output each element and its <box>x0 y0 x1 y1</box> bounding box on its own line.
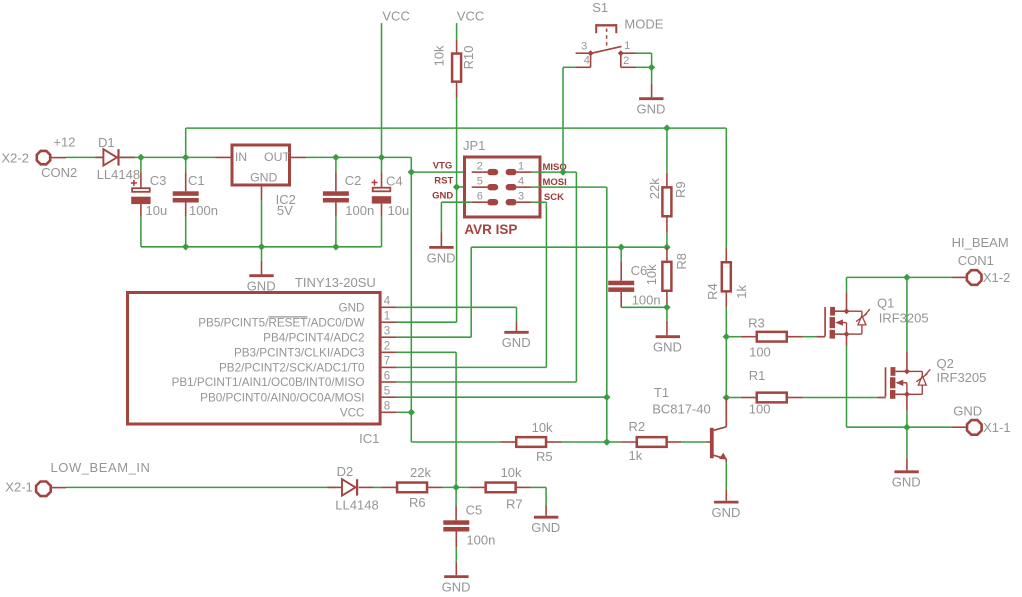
junction S1 pin2 node <box>648 64 655 71</box>
resistor R3 <box>741 332 803 342</box>
svg-text:4: 4 <box>384 296 391 308</box>
resistor R9 <box>662 128 671 247</box>
svg-text:6: 6 <box>384 370 390 382</box>
junction GND rail at C1 <box>182 243 189 250</box>
svg-text:Q1: Q1 <box>877 296 894 311</box>
svg-text:10k: 10k <box>532 420 553 435</box>
wire GND rail C3/C1/IC2/C2/C4 <box>141 216 382 247</box>
junction VCC at VTG elbow <box>408 168 415 175</box>
svg-text:S1: S1 <box>592 0 608 15</box>
wire SCK net: JP1 pin3 to IC1 pin7 <box>397 202 547 367</box>
svg-text:PB5/PCINT5/RESET/ADC0/DW: PB5/PCINT5/RESET/ADC0/DW <box>198 316 364 329</box>
svg-text:100n: 100n <box>189 203 218 218</box>
svg-text:1: 1 <box>384 311 390 323</box>
svg-text:R5: R5 <box>536 449 553 464</box>
svg-text:D2: D2 <box>337 464 354 479</box>
resistor R10 <box>452 23 461 97</box>
svg-text:JP1: JP1 <box>463 138 485 153</box>
svg-text:GND: GND <box>250 171 277 185</box>
svg-text:R4: R4 <box>705 283 720 300</box>
svg-text:GND: GND <box>637 102 666 117</box>
wire MOSI net: JP1 pin4 to IC1 pin5 and R2 <box>397 187 607 442</box>
svg-text:5: 5 <box>477 176 483 188</box>
capacitor C2 <box>323 157 349 216</box>
wire S1 pin4 to MISO node <box>563 67 576 172</box>
ground symbol below S1 <box>637 84 666 117</box>
svg-text:100n: 100n <box>466 533 495 548</box>
svg-text:BC817-40: BC817-40 <box>652 402 711 417</box>
ground symbol below JP1 <box>427 232 456 265</box>
wire R5 to R2 node <box>562 441 620 443</box>
svg-text:4: 4 <box>518 176 524 188</box>
junction R8 bottom / C6 / ground <box>663 304 670 311</box>
svg-text:T1: T1 <box>654 385 669 400</box>
svg-text:8: 8 <box>384 401 390 413</box>
svg-text:GND: GND <box>892 475 921 490</box>
wire LOW_BEAM_IN: X2-1 to D2 <box>66 486 335 488</box>
wire MISO net: JP1 pin1 to IC1 pin6 <box>397 172 577 382</box>
svg-text:+12: +12 <box>53 134 75 149</box>
svg-text:4: 4 <box>584 54 590 66</box>
junction PB4 at R8/R9 <box>663 244 670 251</box>
svg-text:C2: C2 <box>345 173 362 188</box>
svg-text:TINY13-20SU: TINY13-20SU <box>295 275 376 290</box>
mosfet Q2 IRF3205 <box>877 367 930 399</box>
svg-text:C4: C4 <box>386 174 403 189</box>
svg-text:R6: R6 <box>409 495 426 510</box>
microcontroller IC1 TINY13 <box>128 293 397 425</box>
svg-text:3: 3 <box>581 40 587 52</box>
junction GND rail at IC2 GND <box>258 243 265 250</box>
connector pad X2-1 <box>36 482 66 497</box>
junction HI_BEAM at Q2 drain branch <box>903 274 910 281</box>
svg-text:R1: R1 <box>749 368 766 383</box>
svg-text:22k: 22k <box>410 465 431 480</box>
resistor R8 <box>662 247 671 307</box>
svg-text:5: 5 <box>384 386 390 398</box>
resistor R6 <box>381 483 443 493</box>
wire D2 to R6 <box>374 486 382 488</box>
wire S1 pins1/2 to ground <box>636 53 652 83</box>
resistor R7 <box>470 483 531 493</box>
wire VCC net: IC2 OUT to C2, C4, VCC symbol, VTG and IC1 VCC <box>306 23 500 442</box>
ground symbol below Q2 <box>892 458 921 490</box>
connector pad X2-2 <box>37 151 66 164</box>
connector pad X1-2 <box>952 270 982 285</box>
svg-text:GND: GND <box>502 335 531 350</box>
svg-text:GND: GND <box>712 505 741 520</box>
capacitor C5 <box>443 487 469 547</box>
junction R1/T1 collector node <box>723 394 730 401</box>
voltage regulator IC2 <box>216 145 307 201</box>
svg-text:IC1: IC1 <box>359 431 379 446</box>
wire C5 to ground <box>455 547 457 563</box>
svg-text:100n: 100n <box>632 293 661 308</box>
svg-text:1: 1 <box>624 40 630 52</box>
wire R8 bottom to ground <box>666 307 668 321</box>
svg-text:R10: R10 <box>461 46 476 70</box>
ground symbol below IC1 GND pin <box>502 321 531 350</box>
diode D1 <box>95 149 134 165</box>
junction VCC at C2 <box>332 154 339 161</box>
svg-text:X1-1: X1-1 <box>983 420 1010 435</box>
svg-text:GND: GND <box>432 190 453 201</box>
junction low-beam divider node <box>452 484 459 491</box>
svg-text:GND: GND <box>653 340 682 355</box>
wire R7 to ground <box>531 487 547 505</box>
junction R4/R3 node <box>723 333 730 340</box>
svg-text:GND: GND <box>531 520 560 535</box>
capacitor C3 (polarized) <box>131 157 151 216</box>
mosfet Q1 IRF3205 <box>816 307 870 339</box>
svg-text:PB1/PCINT1/AIN1/OC0B/INT0/MISO: PB1/PCINT1/AIN1/OC0B/INT0/MISO <box>172 376 365 389</box>
svg-text:10u: 10u <box>388 203 410 218</box>
svg-text:VCC: VCC <box>340 406 365 419</box>
svg-text:X2-2: X2-2 <box>2 150 29 165</box>
svg-text:VTG: VTG <box>433 160 453 171</box>
svg-text:6: 6 <box>477 191 483 203</box>
ground symbol below C5 <box>442 563 471 595</box>
ground symbol below R7 <box>531 506 560 536</box>
capacitor C4 (polarized) <box>372 157 392 216</box>
connector pad X1-1 <box>952 420 982 435</box>
svg-text:C3: C3 <box>150 173 167 188</box>
wire R4 node to R3 <box>726 336 741 338</box>
junction GND rail at C2 <box>332 243 339 250</box>
overline on RESET <box>269 316 308 318</box>
svg-text:GND: GND <box>442 580 471 595</box>
svg-text:HI_BEAM: HI_BEAM <box>952 235 1009 250</box>
svg-text:GND: GND <box>339 301 365 314</box>
wire HI_BEAM net: Q1 drain, Q2 drain to X1-2 <box>847 277 952 351</box>
wire R2 to T1 base <box>681 441 706 443</box>
capacitor C1 <box>173 157 199 216</box>
svg-text:X1-2: X1-2 <box>983 270 1010 285</box>
svg-text:IRF3205: IRF3205 <box>879 310 929 325</box>
svg-text:R7: R7 <box>506 497 523 512</box>
resistor R2 <box>620 437 681 447</box>
wire JP1 GND pin to ground <box>441 202 471 232</box>
ground symbol below R8 <box>653 321 682 355</box>
wire T1 emitter to ground <box>725 462 727 490</box>
svg-text:C5: C5 <box>466 502 483 517</box>
svg-text:3: 3 <box>518 191 524 203</box>
svg-text:LL4148: LL4148 <box>335 497 378 512</box>
wire output ground net: Q1 source, Q2 source, X1-1, ground <box>847 346 952 458</box>
svg-text:PB3/PCINT3/CLKI/ADC3: PB3/PCINT3/CLKI/ADC3 <box>234 346 365 359</box>
junction MISO at S1 wire <box>559 168 566 175</box>
svg-text:7: 7 <box>384 356 390 368</box>
junction PB4 at C6 <box>618 244 625 251</box>
svg-text:Q2: Q2 <box>937 356 954 371</box>
svg-text:VCC: VCC <box>457 8 484 23</box>
wire Q2 source pin <box>906 394 908 411</box>
svg-text:22k: 22k <box>647 178 662 199</box>
ground symbol below T1 <box>712 490 741 520</box>
wire R1 node to R1 <box>726 397 741 399</box>
svg-text:LL4148: LL4148 <box>97 167 140 182</box>
svg-text:SCK: SCK <box>544 192 564 203</box>
svg-text:CON2: CON2 <box>41 165 77 180</box>
svg-text:R9: R9 <box>673 181 688 198</box>
svg-text:5V: 5V <box>277 203 293 218</box>
ground symbol below IC2 <box>247 247 276 294</box>
svg-text:CON1: CON1 <box>958 253 994 268</box>
junction R2/R5/MOSI node <box>603 438 610 445</box>
wire Q1 drain pin <box>846 292 848 311</box>
svg-text:PB4/PCINT4/ADC2: PB4/PCINT4/ADC2 <box>263 331 364 344</box>
svg-text:GND: GND <box>953 403 982 418</box>
svg-text:100: 100 <box>749 345 771 360</box>
resistor R1 <box>741 393 803 403</box>
junction output ground at X1-1 row <box>903 424 910 431</box>
junction +12 at C1/rail <box>182 154 189 161</box>
resistor R5 <box>500 437 562 447</box>
switch S1 bracket <box>576 24 636 67</box>
svg-text:C1: C1 <box>188 173 205 188</box>
svg-text:IN: IN <box>235 150 247 164</box>
junction MOSI at IC1 pin5 <box>603 394 610 401</box>
wire RST net: R10 to JP1 pin5 and IC1 pin1(RESET) <box>397 97 472 322</box>
svg-text:2: 2 <box>477 160 483 172</box>
svg-text:100n: 100n <box>345 203 374 218</box>
svg-text:X2-1: X2-1 <box>5 480 32 495</box>
svg-text:D1: D1 <box>98 135 115 150</box>
junction VCC at C4 <box>378 154 385 161</box>
wire PB3 net: IC1 pin2 to low-beam divider node <box>397 352 457 487</box>
wire IC2 GND pin down to ground rail <box>261 201 263 247</box>
svg-text:AVR ISP: AVR ISP <box>464 222 517 237</box>
svg-text:R8: R8 <box>674 253 689 270</box>
svg-text:2: 2 <box>623 55 629 67</box>
junction +12 at D1/C3 <box>137 154 144 161</box>
wire R6 to junction to R7 <box>443 486 470 488</box>
svg-text:R3: R3 <box>748 315 765 330</box>
svg-text:RST: RST <box>434 175 453 186</box>
svg-text:IRF3205: IRF3205 <box>937 370 987 385</box>
junction VCC at IC1 pin8 <box>408 409 415 416</box>
transistor T1 BC817-40 <box>707 398 727 463</box>
svg-text:C6: C6 <box>631 263 648 278</box>
wire R1 to Q2 gate <box>803 397 877 399</box>
svg-text:PB2/PCINT2/SCK/ADC1/T0: PB2/PCINT2/SCK/ADC1/T0 <box>219 362 365 375</box>
svg-text:R2: R2 <box>629 419 646 434</box>
junction RST at JP1 pin5 <box>453 183 460 190</box>
svg-text:GND: GND <box>427 250 456 265</box>
junction +12 rail at R9 <box>663 124 670 131</box>
wire IC1 GND pin to ground <box>397 307 517 321</box>
svg-text:3: 3 <box>384 326 390 338</box>
svg-text:10k: 10k <box>432 45 447 66</box>
wire +12 net: pad to D1 to C3 to C1 to IC2 IN, with top rail to R9 and R4 <box>66 128 726 247</box>
wire PB4 net: IC1 pin3 to C6, R8, R9 <box>397 247 667 337</box>
svg-text:OUT: OUT <box>264 150 290 164</box>
svg-text:1k: 1k <box>734 284 749 298</box>
svg-text:LOW_BEAM_IN: LOW_BEAM_IN <box>51 460 151 475</box>
svg-text:10u: 10u <box>146 203 168 218</box>
svg-text:1: 1 <box>518 160 524 172</box>
wire Q1 source pin <box>846 334 848 345</box>
svg-text:VCC: VCC <box>382 8 409 23</box>
svg-text:100: 100 <box>749 401 771 416</box>
svg-text:MODE: MODE <box>624 17 663 32</box>
svg-text:1k: 1k <box>629 448 643 463</box>
wire R3 to Q1 gate <box>803 336 817 338</box>
resistor R4 <box>722 247 731 397</box>
capacitor C6 <box>608 247 667 307</box>
diode D2 <box>327 479 373 495</box>
svg-text:2: 2 <box>384 341 390 353</box>
pin header JP1 (AVR ISP) <box>465 157 541 217</box>
wire Q2 drain pin <box>906 351 908 371</box>
svg-text:PB0/PCINT0/AIN0/OC0A/MOSI: PB0/PCINT0/AIN0/OC0A/MOSI <box>200 391 364 404</box>
svg-text:10k: 10k <box>501 465 522 480</box>
